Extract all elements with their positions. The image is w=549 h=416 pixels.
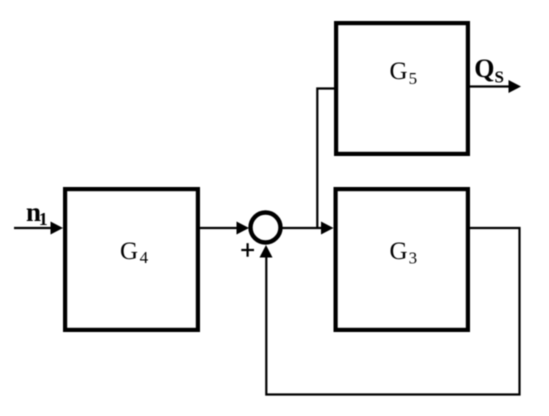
- branch wire up to G5: [317, 89, 334, 229]
- svg-text:G: G: [390, 238, 408, 265]
- svg-text:G: G: [120, 238, 138, 265]
- arrowhead into summing junction: [237, 222, 250, 235]
- output wire Qs: [470, 85, 509, 87]
- svg-text:S: S: [495, 68, 504, 87]
- wire summing junction to G3: [282, 227, 323, 229]
- input arrowhead: [51, 222, 64, 235]
- feedback wire: [266, 228, 519, 395]
- output arrowhead: [509, 80, 522, 93]
- arrowhead into G3: [321, 222, 334, 235]
- feedback arrowhead into summing junction: [260, 245, 273, 258]
- svg-text:1: 1: [39, 209, 48, 229]
- block G5: [336, 23, 468, 154]
- svg-text:5: 5: [409, 69, 418, 88]
- summing junction: [251, 213, 281, 243]
- svg-text:4: 4: [140, 248, 149, 267]
- input arrow n1 wire: [14, 227, 52, 229]
- svg-text:Q: Q: [474, 54, 494, 83]
- plus sign: [241, 249, 254, 251]
- wire G4 to summing junction: [200, 227, 238, 229]
- svg-text:G: G: [390, 58, 408, 85]
- block G3: [336, 189, 468, 330]
- block G4: [65, 189, 198, 330]
- svg-text:3: 3: [409, 249, 418, 268]
